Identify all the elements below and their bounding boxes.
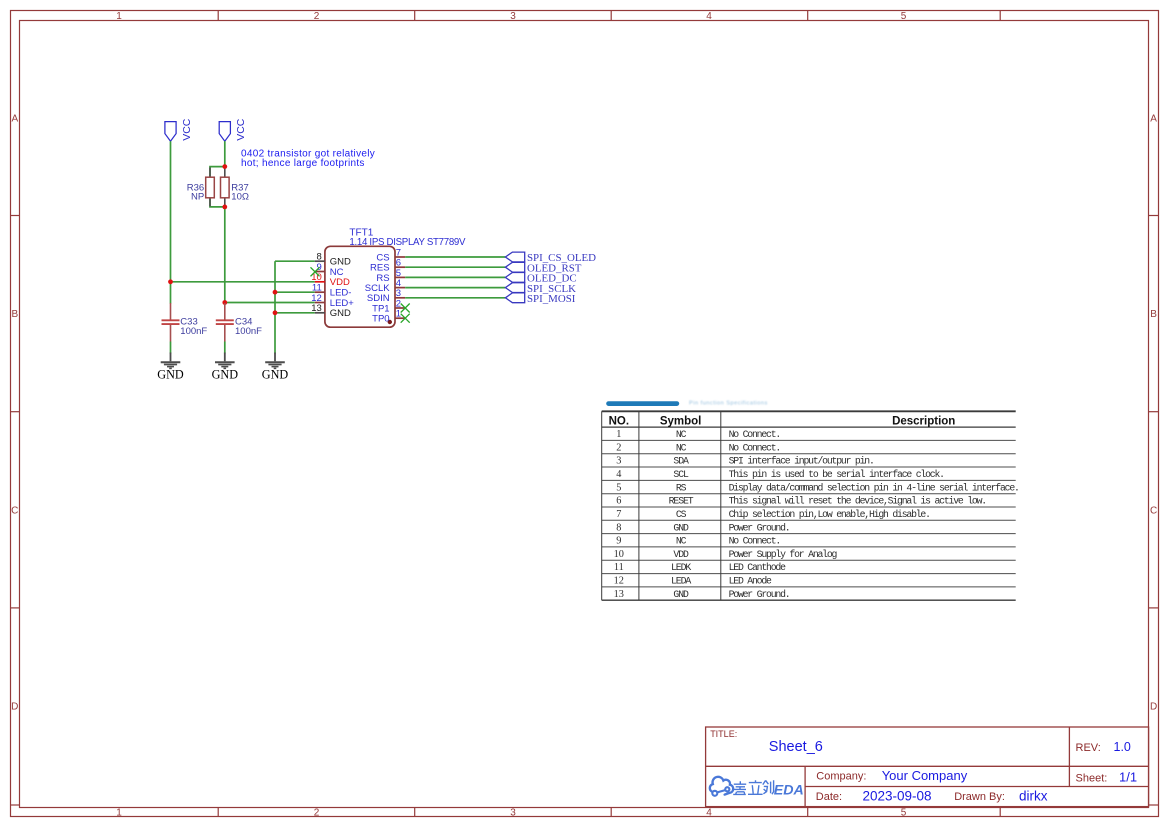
svg-text:4: 4 (706, 808, 712, 819)
svg-text:GND: GND (673, 589, 689, 600)
svg-text:EDA: EDA (774, 782, 804, 798)
ground symbol GND2 (215, 353, 235, 369)
svg-text:1.14 IPS DISPLAY ST7789V: 1.14 IPS DISPLAY ST7789V (349, 237, 466, 248)
capacitor C33 100nF (162, 303, 180, 354)
svg-text:VCC: VCC (181, 118, 193, 141)
ground symbol GND1 (161, 353, 181, 369)
wire pin13 GND from column3 (275, 312, 315, 314)
svg-text:1: 1 (116, 11, 122, 22)
svg-text:This pin is used to be serial: This pin is used to be serial interface … (729, 469, 944, 480)
net flag SPI_CS_OLED (505, 252, 524, 262)
table header separator (602, 426, 1016, 428)
svg-text:Sheet_6: Sheet_6 (769, 739, 823, 755)
wire to net flag SPI_SCLK (405, 287, 505, 289)
svg-text:VCC: VCC (235, 118, 247, 141)
table row separator lines (602, 440, 1016, 587)
svg-text:NO.: NO. (609, 416, 629, 428)
frame column labels 1-5 bottom (116, 808, 907, 819)
pin 10 VDD (left) (311, 272, 350, 288)
svg-text:Chip selection pin,Low enable,: Chip selection pin,Low enable,High disab… (729, 509, 930, 520)
svg-text:Sheet:: Sheet: (1076, 772, 1108, 784)
title block company/date divider (805, 786, 1149, 788)
svg-text:1: 1 (616, 429, 621, 440)
table row 8 GND (616, 522, 789, 533)
table row 4 SCL (616, 469, 944, 480)
svg-text:A: A (1150, 113, 1157, 124)
svg-text:GND: GND (673, 522, 689, 533)
wire vertical column to GND3 (274, 261, 276, 353)
resistor R37 (221, 167, 230, 207)
wire resistor-pair top loop (210, 167, 225, 178)
junction LED+/column2 (222, 300, 227, 305)
pin 9 NC (left) (315, 262, 344, 278)
svg-text:11: 11 (614, 562, 624, 573)
pin 3 SDIN (right) (367, 288, 405, 304)
svg-text:NP: NP (191, 192, 204, 203)
table row 2 NC (616, 442, 780, 453)
frame column labels 1-5 top (116, 11, 907, 22)
logo cloud icon (710, 777, 733, 795)
power flag VCC (right) (219, 122, 230, 142)
pin 4 SCLK (right) (365, 278, 405, 294)
svg-text:Date:: Date: (816, 791, 842, 803)
svg-text:SCL: SCL (673, 469, 689, 480)
svg-text:TP0: TP0 (372, 314, 389, 325)
svg-text:dirkx: dirkx (1019, 788, 1048, 803)
svg-text:10Ω: 10Ω (231, 192, 249, 203)
svg-text:3: 3 (510, 808, 516, 819)
wire VCC2 down to R pair top junction (224, 141, 226, 166)
svg-text:D: D (11, 702, 18, 713)
frame row labels A-D left (11, 113, 18, 712)
logo text li (748, 780, 763, 794)
svg-text:100nF: 100nF (235, 326, 262, 337)
net flag OLED_RST (505, 262, 524, 272)
svg-text:GND: GND (262, 367, 289, 381)
title block outline (706, 727, 1149, 807)
svg-text:LED Canthode: LED Canthode (729, 562, 786, 573)
pin 6 RES (right) (370, 258, 405, 274)
svg-text:2023-09-08: 2023-09-08 (863, 789, 932, 804)
table row 12 LEDA (614, 576, 772, 587)
junction LED-/column3 (273, 290, 278, 295)
svg-text:5: 5 (901, 11, 907, 22)
wire to net flag SPI_MOSI (405, 297, 505, 299)
svg-text:5: 5 (616, 482, 621, 493)
svg-text:RS: RS (676, 482, 687, 493)
wire R pair bottom junction down to C34 (224, 207, 226, 305)
pin 1 TP0 (right) (372, 309, 405, 325)
svg-text:3: 3 (510, 11, 516, 22)
svg-text:hot; hence large footprints: hot; hence large footprints (241, 158, 365, 169)
net flag SPI_MOSI (505, 293, 524, 303)
label C33 100nF (180, 317, 207, 338)
svg-text:4: 4 (616, 469, 621, 480)
table row 11 LEDK (614, 562, 786, 573)
svg-text:Power Supply for Analog: Power Supply for Analog (729, 549, 838, 560)
title block REV column divider (1068, 727, 1070, 787)
table row 9 NC (616, 536, 780, 547)
svg-text:GND: GND (330, 308, 351, 319)
table row 10 VDD (614, 549, 838, 560)
table outer top border (602, 410, 1016, 412)
frame row labels A-D right (1150, 113, 1157, 712)
pin 2 TP1 (right) (372, 298, 405, 314)
svg-text:NC: NC (676, 429, 687, 440)
svg-text:No Connect.: No Connect. (729, 442, 780, 453)
svg-text:3: 3 (616, 456, 621, 467)
svg-text:Company:: Company: (816, 770, 866, 782)
resistor R36 (206, 168, 215, 207)
svg-text:NC: NC (676, 442, 687, 453)
svg-text:LEDA: LEDA (671, 576, 691, 587)
wire VDD pin10 from column1 (171, 281, 315, 283)
table row 1 NC (616, 429, 780, 440)
label R36 NP (187, 183, 204, 203)
wire to net flag OLED_DC (405, 276, 505, 278)
svg-text:TITLE:: TITLE: (710, 729, 737, 739)
svg-text:This signal will reset the dev: This signal will reset the device,Signal… (729, 496, 986, 507)
svg-text:Drawn By:: Drawn By: (954, 791, 1005, 803)
svg-text:C: C (11, 505, 18, 516)
label R37 10ohm (231, 183, 249, 203)
junction R-pair bottom (222, 205, 227, 210)
svg-text:Power Ground.: Power Ground. (729, 589, 790, 600)
svg-text:Your Company: Your Company (882, 768, 968, 783)
svg-text:D: D (1150, 702, 1157, 713)
ground symbol GND3 (265, 353, 285, 369)
svg-text:5: 5 (901, 808, 907, 819)
svg-text:1.0: 1.0 (1114, 740, 1131, 754)
svg-text:10: 10 (614, 549, 624, 560)
table vertical borders (602, 411, 721, 600)
wire to net flag OLED_RST (405, 266, 505, 268)
svg-text:Pin function Specifications: Pin function Specifications (689, 401, 768, 407)
svg-text:GND: GND (157, 367, 184, 381)
svg-text:13: 13 (311, 303, 322, 314)
svg-text:4: 4 (706, 11, 712, 22)
table row 5 RS (616, 482, 1018, 493)
pin 13 GND (left) (311, 303, 351, 319)
svg-text:7: 7 (616, 509, 621, 520)
frame column tick marks (218, 11, 1000, 817)
no-connect X pin 2 TP1 (401, 304, 410, 313)
svg-text:100nF: 100nF (180, 326, 207, 337)
svg-text:2: 2 (616, 442, 621, 453)
svg-text:8: 8 (616, 522, 621, 533)
table bottom border (602, 599, 1016, 601)
svg-text:SDA: SDA (673, 456, 689, 467)
pin 5 RS (right) (376, 268, 405, 284)
svg-text:1/1: 1/1 (1119, 769, 1137, 784)
table heading pill bar (606, 401, 679, 406)
svg-text:SPI_MOSI: SPI_MOSI (527, 293, 576, 305)
table row 6 RESET (616, 496, 986, 507)
svg-text:LED Anode: LED Anode (729, 576, 772, 587)
wire resistor-pair bottom loop (210, 198, 225, 207)
net flag SPI_SCLK (505, 283, 524, 293)
svg-text:9: 9 (616, 536, 621, 547)
svg-text:VDD: VDD (330, 277, 350, 288)
svg-text:RESET: RESET (669, 496, 694, 507)
net flag OLED_DC (505, 273, 524, 283)
capacitor C34 100nF (216, 303, 234, 354)
svg-text:13: 13 (614, 589, 624, 600)
svg-text:No Connect.: No Connect. (729, 536, 780, 547)
wire pin12 LED+ from column2 (225, 302, 315, 304)
svg-text:2: 2 (314, 11, 320, 22)
svg-text:CS: CS (676, 509, 687, 520)
svg-text:SPI interface input/outpur pin: SPI interface input/outpur pin. (729, 456, 874, 467)
no-connect X pin 9 (311, 267, 320, 276)
svg-text:B: B (1150, 309, 1157, 320)
IC anchor dot (388, 320, 392, 324)
wire pin8 GND to column3 (275, 260, 315, 262)
title block logo column divider (804, 766, 806, 806)
svg-text:VDD: VDD (673, 549, 689, 560)
logo cloud share nodes (712, 787, 729, 796)
pin 11 LED- (left) (312, 283, 352, 299)
junction R-pair top (222, 164, 227, 169)
power flag VCC (left) (165, 122, 176, 142)
svg-text:2: 2 (314, 808, 320, 819)
table row 13 GND (614, 589, 790, 600)
svg-text:No Connect.: No Connect. (729, 429, 780, 440)
no-connect X pin 1 TP0 (401, 314, 410, 323)
junction VDD/column1 (168, 279, 173, 284)
svg-text:NC: NC (676, 536, 687, 547)
junction pin13/column3 (273, 310, 278, 315)
frame row tick marks (10, 216, 1159, 806)
pin 8 GND (left) (315, 252, 351, 268)
svg-text:Power Ground.: Power Ground. (729, 522, 790, 533)
svg-text:A: A (11, 113, 18, 124)
svg-text:Description: Description (892, 416, 955, 428)
svg-text:Symbol: Symbol (660, 416, 702, 428)
svg-text:C: C (1150, 505, 1157, 516)
table row 3 SDA (616, 456, 873, 467)
svg-text:GND: GND (212, 367, 239, 381)
table row 7 CS (616, 509, 930, 520)
annotation note text (241, 149, 375, 170)
svg-text:REV:: REV: (1076, 742, 1101, 754)
logo text chuang (763, 780, 774, 794)
wire pin11 LED- from column3 (275, 291, 315, 293)
label C34 100nF (235, 317, 262, 338)
svg-text:LEDK: LEDK (671, 562, 691, 573)
pin 7 CS (right) (376, 247, 405, 263)
pin 12 LED+ (left) (311, 293, 354, 309)
wire to net flag SPI_CS_OLED (405, 256, 505, 258)
svg-text:6: 6 (616, 496, 621, 507)
IC TFT1 outline (325, 246, 395, 327)
svg-text:Display data/command selection: Display data/command selection pin in 4-… (729, 482, 1019, 493)
wire VCC1 vertical down to C33 (170, 141, 172, 303)
title block title row divider (706, 765, 1149, 767)
logo text jia (733, 781, 746, 794)
svg-text:12: 12 (614, 576, 624, 587)
svg-text:1: 1 (116, 808, 122, 819)
svg-text:B: B (11, 309, 18, 320)
